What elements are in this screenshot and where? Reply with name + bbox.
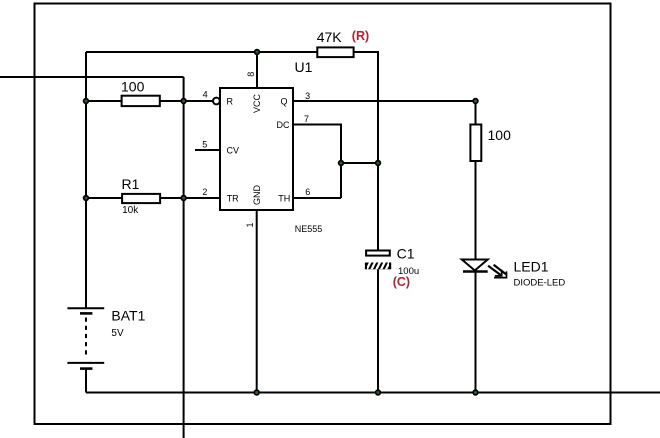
wire DC pin [293,125,341,199]
resistor 47K [317,47,353,57]
svg-text:DIODE-LED: DIODE-LED [514,277,566,288]
svg-text:NE555: NE555 [295,224,323,234]
svg-text:100: 100 [488,127,512,143]
junction ground rail / C1 [376,390,381,395]
svg-text:7: 7 [304,114,309,124]
svg-text:5V: 5V [111,328,124,339]
junction reset node at off-page wire [181,99,186,104]
svg-text:(R): (R) [352,29,369,43]
svg-text:TR: TR [227,194,239,204]
wire left rail [85,52,87,308]
op-amp U1 body (NE555 IC) [220,88,293,210]
junction ground rail / LED [473,390,478,395]
svg-text:1: 1 [245,222,255,227]
svg-text:100: 100 [121,78,145,94]
wire top rail [86,51,317,53]
svg-text:R1: R1 [122,176,140,192]
junction TR node at left rail [84,196,89,201]
battery BAT1 plates [67,308,104,368]
wire 47K to right vertical [354,52,378,250]
junction cap branch [376,161,381,166]
wire R1 to TR pin [160,197,220,199]
svg-text:3: 3 [305,91,310,101]
svg-text:(C): (C) [393,275,410,289]
LED1 diode triangle [462,260,488,271]
pin 4 bubble [213,98,220,105]
capacitor C1 bottom plate [365,261,391,270]
wire Q output [293,100,476,102]
svg-text:4: 4 [203,90,208,100]
junction reset node at left rail [84,99,89,104]
svg-text:6: 6 [305,187,310,197]
junction DC/TH tie [339,161,344,166]
wire TH pin [293,197,341,199]
junction VCC rail / pin 8 [255,50,260,55]
wire C1 bottom to rail [377,269,379,392]
svg-text:8: 8 [246,72,256,77]
svg-text:2: 2 [202,187,207,197]
wire off-page down [183,77,185,438]
svg-text:BAT1: BAT1 [111,308,145,324]
svg-text:LED1: LED1 [514,259,549,275]
wire off-page left [0,76,184,78]
junction ground rail / pin 1 [254,390,259,395]
resistor 100 left [122,96,160,106]
wire jumper DC/TH to cap branch [341,162,378,164]
svg-text:U1: U1 [295,59,313,75]
junction Q output / LED branch [473,99,478,104]
svg-text:R: R [227,97,234,107]
wire ground rail [86,392,660,394]
wire resistor to LED [475,161,477,260]
wire TR node [86,197,122,199]
LED1 cathode bar [463,270,488,272]
capacitor C1 top plate [366,251,390,256]
svg-text:C1: C1 [397,245,415,261]
wire LED branch top [475,101,477,125]
wire pin 1 [256,210,258,393]
junction node dots [84,50,478,395]
LED arrow 1 [488,266,502,276]
svg-text:Q: Q [281,97,288,107]
svg-text:VCC: VCC [252,94,262,114]
wire LED to ground rail [475,272,477,393]
LED arrow 2 [494,265,507,278]
wire reset node [86,100,122,102]
resistor 100 right [470,125,481,162]
wire resistor to R pin [160,100,213,102]
svg-text:DC: DC [277,120,290,130]
resistor R1 [122,194,160,203]
wire battery to ground rail [85,370,87,393]
wire CV stub [195,149,220,151]
svg-text:GND: GND [252,185,262,206]
wire pin 8 [256,52,258,88]
svg-text:47K: 47K [317,29,343,45]
svg-text:CV: CV [227,146,240,156]
junction TR node at off-page wire [181,196,186,201]
svg-text:TH: TH [278,194,290,204]
svg-text:10k: 10k [122,205,139,216]
svg-text:5: 5 [202,139,207,149]
